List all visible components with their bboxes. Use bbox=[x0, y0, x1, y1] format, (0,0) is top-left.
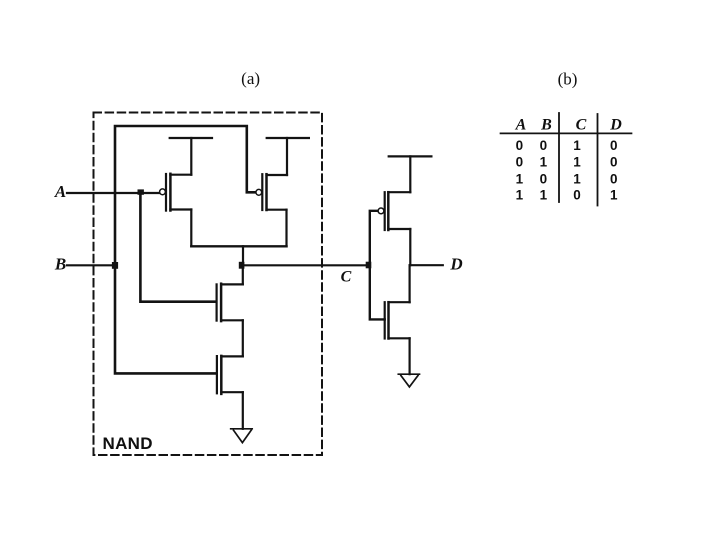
wire node B up over to PMOS Q2 gate bbox=[115, 126, 256, 265]
wire input A bbox=[67, 192, 160, 194]
svg-text:A: A bbox=[515, 117, 527, 134]
transistor Q6 NMOS bbox=[385, 302, 410, 338]
wire PMOS drain bus bbox=[191, 245, 286, 247]
svg-text:0: 0 bbox=[610, 171, 618, 186]
svg-text:1: 1 bbox=[516, 188, 524, 203]
svg-text:0: 0 bbox=[540, 138, 548, 153]
svg-text:0: 0 bbox=[540, 171, 548, 186]
wire output D bbox=[410, 264, 443, 266]
wire node C down to NMOS Q3 drain bbox=[242, 265, 244, 284]
wire Q5 drain down to output bbox=[409, 229, 411, 265]
svg-text:(a): (a) bbox=[241, 69, 260, 88]
wire Q1 drain down to bus bbox=[190, 210, 192, 247]
svg-text:D: D bbox=[609, 117, 622, 134]
dashed box NAND gate boundary bbox=[94, 113, 323, 456]
svg-text:1: 1 bbox=[610, 188, 618, 203]
wire Q6 drain up to output bbox=[409, 265, 411, 302]
wire bus down to node C bbox=[242, 246, 244, 265]
svg-text:0: 0 bbox=[516, 155, 524, 170]
transistor Q3 NMOS bbox=[217, 284, 243, 321]
svg-text:(b): (b) bbox=[558, 70, 578, 89]
svg-text:B: B bbox=[540, 117, 552, 134]
truth table row 4 : 1 1 0 1 bbox=[516, 188, 618, 203]
svg-text:0: 0 bbox=[516, 138, 524, 153]
svg-text:C: C bbox=[576, 117, 587, 134]
svg-text:D: D bbox=[449, 255, 462, 274]
truth table header rule bbox=[501, 132, 632, 134]
wire junction up to PMOS Q5 gate bbox=[370, 211, 378, 265]
ground symbol NAND bbox=[231, 429, 253, 443]
truth table divider line 1 bbox=[558, 113, 560, 202]
node C junction dot (NAND output) bbox=[239, 262, 245, 269]
ground symbol inverter bbox=[398, 374, 419, 387]
svg-text:B: B bbox=[54, 255, 66, 274]
truth table row 3 : 1 0 1 0 bbox=[516, 171, 618, 186]
svg-text:1: 1 bbox=[540, 188, 548, 203]
wire Q6 source down to ground bbox=[409, 338, 411, 374]
wire node A down to NMOS Q3 gate bbox=[140, 193, 215, 302]
wire Q3 source to Q4 drain bbox=[242, 320, 244, 356]
transistor Q2 PMOS bbox=[256, 174, 287, 210]
wire input B bbox=[67, 264, 115, 266]
power rail VDD inverter bbox=[389, 156, 432, 192]
svg-text:1: 1 bbox=[516, 171, 524, 186]
svg-text:1: 1 bbox=[573, 171, 581, 186]
node inverter input junction dot bbox=[366, 262, 372, 269]
svg-text:0: 0 bbox=[573, 188, 581, 203]
svg-text:1: 1 bbox=[540, 155, 548, 170]
wire Q4 source down to ground bbox=[242, 392, 244, 429]
transistor Q4 NMOS bbox=[217, 356, 243, 394]
svg-text:C: C bbox=[341, 269, 352, 286]
truth table row 1 : 0 0 1 0 bbox=[516, 138, 618, 153]
power rail VDD for Q2 bbox=[267, 138, 309, 175]
wire node B down to NMOS Q4 gate bbox=[115, 265, 216, 373]
truth table divider line 2 bbox=[597, 114, 599, 206]
transistor Q1 PMOS bbox=[160, 174, 192, 211]
wire Q2 drain down to bus bbox=[285, 210, 287, 247]
power rail VDD for Q1 bbox=[170, 138, 212, 175]
svg-text:1: 1 bbox=[573, 138, 581, 153]
svg-text:1: 1 bbox=[573, 155, 581, 170]
svg-text:0: 0 bbox=[610, 138, 618, 153]
node B junction dot bbox=[112, 262, 118, 269]
svg-text:NAND: NAND bbox=[103, 434, 153, 453]
svg-text:0: 0 bbox=[610, 155, 618, 170]
svg-text:A: A bbox=[54, 182, 66, 201]
transistor Q5 PMOS bbox=[378, 192, 410, 230]
wire junction down to NMOS Q6 gate bbox=[370, 265, 385, 319]
wire output C to inverter bbox=[243, 264, 369, 266]
truth table row 2 : 0 1 1 0 bbox=[516, 155, 618, 170]
node A junction dot bbox=[138, 189, 144, 194]
